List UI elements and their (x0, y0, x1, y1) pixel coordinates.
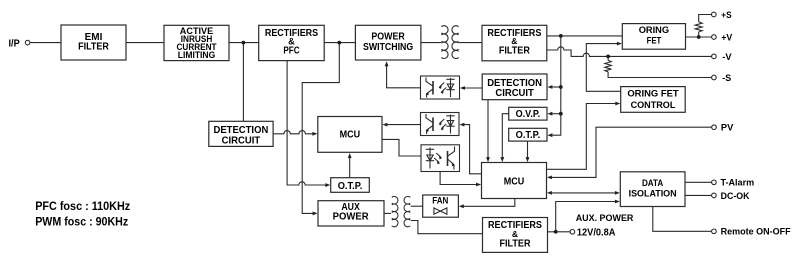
transformer T1 (main) right winding (452, 26, 459, 59)
arrow into O.T.P.2 (547, 133, 552, 137)
wire: DATA ISOLATION to DC-OK (685, 194, 712, 196)
arrow into DATA ISOLATION from MCU2 (615, 191, 620, 195)
junction: rail to detection 2 (559, 85, 563, 89)
svg-text:PFC: PFC (283, 45, 299, 56)
svg-text:CONTROL: CONTROL (631, 99, 676, 110)
resistor R2 (-S sense) (605, 60, 611, 72)
wire: MCU1 to opto U3 (382, 139, 421, 156)
junction: -V / -S sense (606, 55, 610, 59)
arrow into MCU1 right edge (382, 123, 387, 127)
wire: aux 12V to DATA ISOLATION (556, 202, 616, 232)
arrow into O.V.P. (547, 112, 552, 116)
svg-text:DC-OK: DC-OK (721, 191, 750, 202)
svg-text:+S: +S (721, 10, 732, 21)
label: DETECTION CIRCUIT (secondary side) (487, 78, 542, 99)
resistor R1 (+S sense) (695, 22, 702, 32)
svg-text:ISOLATION: ISOLATION (629, 188, 677, 199)
svg-text:DATA: DATA (642, 177, 663, 188)
arrow into ORING FET CONTROL (615, 102, 620, 106)
label: RECTIFIERS & PFC (265, 28, 319, 56)
block: POWER SWITCHING (355, 25, 421, 60)
arrow into MCU2 top from O.V.P. (500, 157, 504, 162)
svg-text:DETECTION: DETECTION (487, 78, 542, 89)
wire: MCU2 to FAN drive (464, 199, 515, 207)
junction: node A on AC bus (242, 41, 246, 45)
arrow into MCU2 from opto U3 (476, 183, 481, 187)
wire: DETECTION CIRCUIT 1 to MCU1 (273, 131, 313, 134)
block: AUX POWER (318, 201, 384, 226)
svg-text:FET: FET (647, 35, 662, 46)
arrow into MCU2 from PV (547, 176, 552, 180)
transformer T2 (aux) left winding (392, 196, 398, 226)
svg-text:CIRCUIT: CIRCUIT (222, 136, 261, 147)
svg-text:+V: +V (721, 32, 733, 43)
terminal -S (712, 75, 717, 80)
arrow into MCU2 from DATA ISOLATION (547, 191, 552, 195)
arrow into DETECTION CIRCUIT 2 (547, 85, 552, 89)
block: ORING FET (622, 24, 685, 50)
svg-text:FAN: FAN (432, 194, 448, 205)
wire: O.V.P. to MCU2 top (502, 114, 508, 158)
wire: +S sense line (699, 15, 712, 38)
junction: node B on AC bus (337, 41, 341, 45)
arrow into POWER SWITCHING (385, 61, 389, 66)
wire: aux 12V output (548, 231, 571, 233)
terminal +S (712, 12, 717, 17)
wire: node B branch to AUX POWER (302, 43, 339, 214)
junction: aux 12V tap (554, 230, 558, 234)
junction: rail to O.V.P. (559, 112, 563, 116)
wire: opto U3 to MCU2 (440, 172, 476, 185)
svg-text:MCU: MCU (340, 129, 361, 141)
svg-text:FILTER: FILTER (78, 42, 109, 53)
block: MCU (secondary side) (482, 163, 547, 199)
wire: -V rail to -V terminal (547, 47, 712, 57)
terminal I/P (25, 40, 30, 45)
svg-text:O.V.P.: O.V.P. (516, 109, 541, 120)
label: RECTIFIERS & FILTER (aux output) (488, 220, 542, 249)
terminal 12V aux (570, 230, 575, 235)
svg-text:FILTER: FILTER (499, 45, 531, 56)
svg-text:O.T.P.: O.T.P. (516, 130, 541, 141)
wire: ORING FET to +V terminal (686, 36, 712, 38)
optocoupler U2 (MCU2 to MCU1) (421, 113, 460, 136)
svg-text:&: & (512, 229, 518, 239)
block: ACTIVE INRUSH CURRENT LIMITING (164, 25, 229, 60)
wire: +V sense rail down to protection blocks (552, 36, 561, 135)
label: ORING FET CONTROL (627, 87, 679, 110)
arrow into MCU2 top from detection (486, 157, 490, 162)
svg-text:POWER: POWER (371, 32, 405, 43)
svg-text:T-Alarm: T-Alarm (721, 178, 755, 189)
svg-text:-S: -S (722, 73, 731, 84)
wire: POWER SWITCHING to T1 primary (421, 42, 441, 44)
arrow into MCU1 left edge (312, 132, 317, 136)
wire: opto U2 to MCU2 loop (464, 125, 481, 174)
svg-text:AUX. POWER: AUX. POWER (576, 213, 634, 224)
block: MCU (primary side) (318, 117, 382, 153)
arrow into DATA ISOLATION from aux 12V (615, 200, 620, 204)
label: ACTIVE INRUSH CURRENT LIMITING (177, 26, 217, 61)
wire: RECTIFIERS-PFC bus to O.T.P.1 (287, 61, 326, 185)
wire: I/P to EMI FILTER (30, 42, 61, 44)
wire: ORING FET CONTROL to ORING FET gate (586, 44, 620, 92)
wire: MCU2 to ORING FET CONTROL (547, 104, 616, 170)
svg-text:MCU: MCU (504, 175, 525, 187)
terminal -V (712, 54, 717, 59)
terminal PV (712, 125, 717, 130)
terminal T-Alarm (712, 180, 717, 185)
wire: node A branch to DETECTION CIRCUIT 1 (242, 43, 244, 122)
svg-text:SWITCHING: SWITCHING (363, 42, 413, 53)
wire: O.T.P.2 to MCU2 top (527, 141, 529, 158)
svg-text:PFC fosc : 110KHz: PFC fosc : 110KHz (35, 199, 130, 213)
block: DETECTION CIRCUIT (primary side) (209, 121, 273, 146)
wire: MCU2 to DATA ISOLATION (552, 192, 616, 194)
label: RECTIFIERS & FILTER (main output) (487, 28, 541, 56)
block: ORING FET CONTROL (621, 87, 686, 113)
arrow into MCU1 bottom (348, 153, 352, 158)
block: O.V.P. (509, 107, 547, 120)
wire: O.T.P.1 to MCU1 bottom (349, 158, 351, 178)
block: O.T.P. (secondary side) (509, 128, 547, 141)
block: O.T.P. (primary side) (331, 178, 370, 193)
svg-text:-V: -V (722, 52, 732, 63)
wire: AUX POWER to T2 primary (384, 212, 391, 214)
svg-text:ORING FET: ORING FET (627, 87, 679, 98)
wire: DATA ISOLATION to T-Alarm (685, 181, 712, 183)
terminal Remote ON-OFF (712, 229, 717, 234)
wire: rail tap to DETECTION CIRCUIT 2 (552, 86, 561, 88)
block: DATA ISOLATION (620, 172, 685, 207)
wire: +V rail RECTIFIERS-FILTER to ORING FET (547, 35, 623, 37)
block: RECTIFIERS & PFC (259, 25, 325, 60)
svg-text:PV: PV (721, 123, 734, 134)
arrow into FAN (459, 204, 464, 208)
arrow into opto U1 (460, 86, 465, 90)
junction: +V / +S sense (697, 35, 701, 39)
wire: INRUSH LIMITING to RECTIFIERS-PFC (229, 42, 259, 44)
svg-text:POWER: POWER (333, 212, 370, 223)
svg-text:O.T.P.: O.T.P. (338, 181, 363, 192)
wire: RECTIFIERS-PFC to POWER SWITCHING (324, 42, 355, 44)
terminal DC-OK (712, 193, 717, 198)
svg-text:LIMITING: LIMITING (178, 50, 216, 61)
svg-text:I/P: I/P (9, 38, 20, 49)
arrow into O.T.P.1 (325, 183, 330, 187)
svg-text:PWM fosc : 90KHz: PWM fosc : 90KHz (35, 214, 128, 228)
label: POWER SWITCHING (363, 32, 413, 53)
arrow into AUX POWER (313, 212, 318, 216)
wire: DETECTION CIRCUIT 2 to opto U1 (464, 87, 482, 89)
svg-text:ORING: ORING (639, 24, 669, 35)
block: DETECTION CIRCUIT (secondary side) (482, 74, 547, 100)
junction: +V rail tap (559, 34, 563, 38)
label: AUX POWER (333, 202, 370, 222)
arrow into MCU2 top from O.T.P.2 (526, 157, 530, 162)
arrow into ORING FET gate (617, 42, 622, 46)
optocoupler U3 (MCU1 to MCU2) (421, 145, 460, 172)
transformer T2 (aux) right winding (404, 196, 410, 226)
block: FAN (423, 195, 459, 217)
arrow into opto U2 (459, 123, 464, 127)
wire: PV terminal to MCU2 (552, 127, 712, 177)
svg-text:FILTER: FILTER (500, 239, 532, 250)
svg-text:CIRCUIT: CIRCUIT (495, 88, 534, 99)
block: RECTIFIERS & FILTER (main output) (482, 25, 547, 61)
wire: DETECTION CIRCUIT 2 to MCU2 top (487, 100, 489, 158)
wire: T2 secondary to FAN (411, 205, 423, 207)
svg-text:Remote ON-OFF: Remote ON-OFF (721, 227, 791, 238)
wire: opto U1 to POWER SWITCHING feedback (387, 66, 421, 88)
wire: -S sense line (608, 56, 712, 77)
terminal +V (712, 35, 717, 40)
label: ORING FET (639, 24, 669, 46)
label: DATA ISOLATION (629, 177, 677, 199)
wire: EMI FILTER to INRUSH LIMITING (126, 42, 164, 44)
block: EMI FILTER (61, 25, 126, 60)
wire: T2 secondary to RECTIFIERS-FILTER aux (411, 221, 483, 234)
optocoupler U1 (feedback to power switching) (421, 76, 460, 99)
svg-text:12V/0.8A: 12V/0.8A (577, 227, 616, 238)
label: DETECTION CIRCUIT (primary side) (214, 125, 269, 146)
wire: T1 secondary to RECTIFIERS-FILTER (459, 42, 482, 44)
wire: opto U2 to MCU1 (387, 124, 420, 126)
wire: DATA ISOLATION to Remote ON-OFF (653, 207, 712, 232)
transformer T1 (main) left winding (441, 26, 448, 59)
wire: rail tap to O.V.P. (552, 113, 561, 115)
svg-text:DETECTION: DETECTION (214, 125, 269, 136)
block: RECTIFIERS & FILTER (aux output) (483, 218, 548, 253)
fan blade symbol (434, 208, 447, 214)
label: EMI FILTER (78, 32, 109, 53)
